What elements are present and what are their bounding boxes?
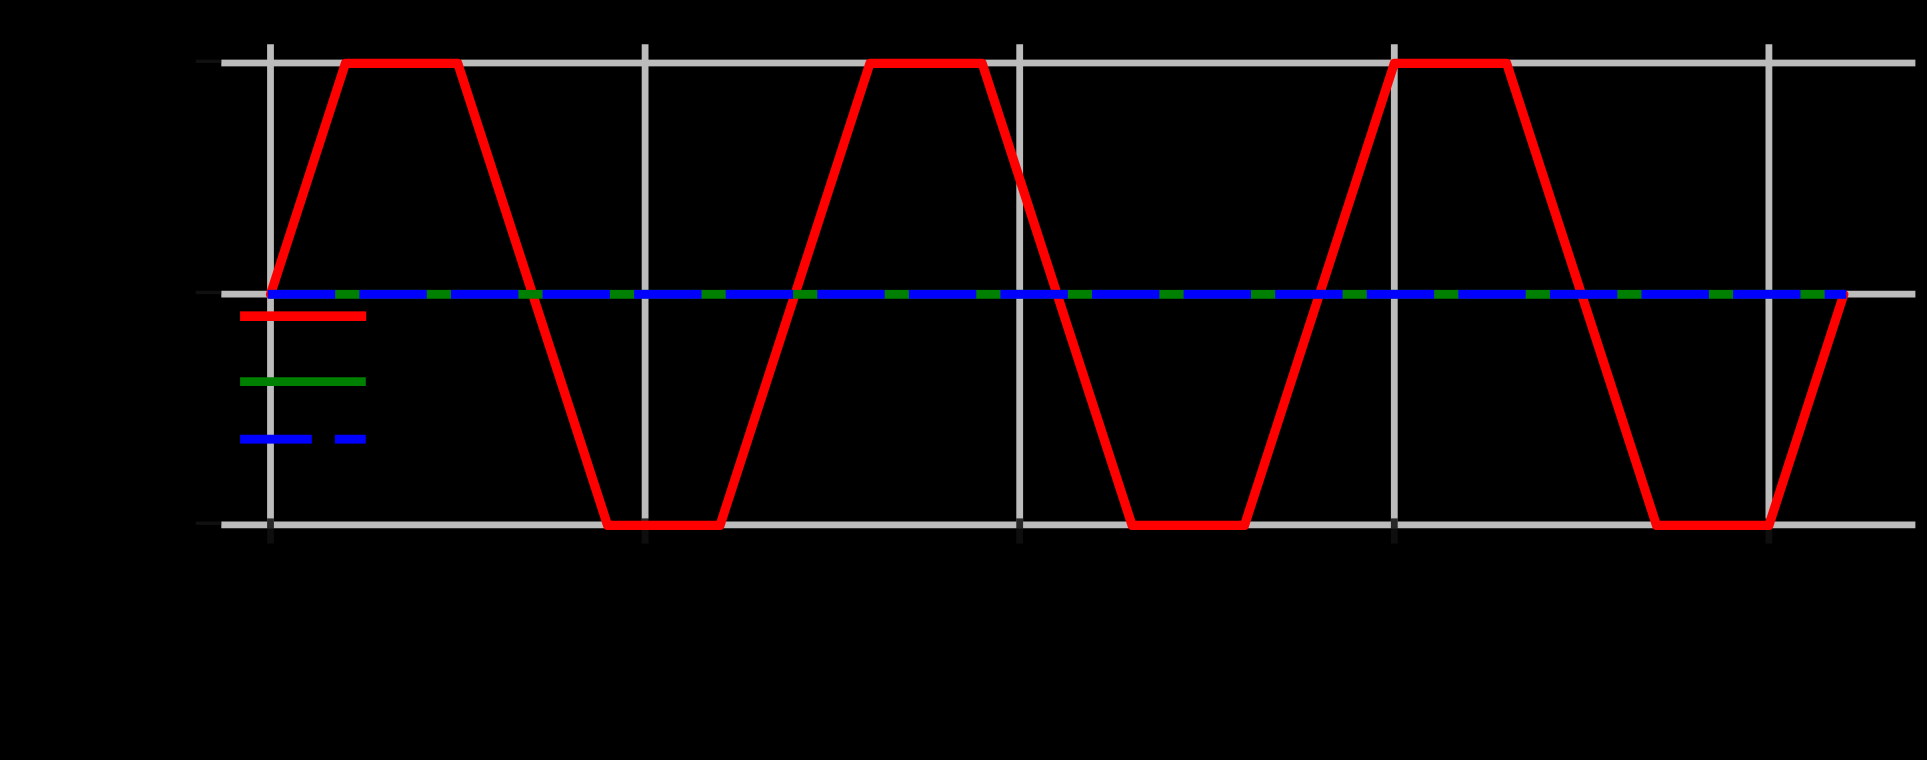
left tick stub y=+1 [196,60,222,63]
grid vertical x=20 [1766,44,1773,525]
grid vertical x=15 [1391,44,1398,525]
legend sample blue (dashed) dash 1 [240,435,312,444]
grid horizontal y=+1 [221,60,1915,67]
legend sample red (solid) [240,311,366,321]
grid vertical x=5 [642,44,649,525]
bottom tick tail below axis at x=0 [267,528,274,543]
grid vertical x=0 [267,44,274,525]
legend sample blue (dashed) dash 2 [335,435,366,444]
grid vertical x=10 [1016,44,1023,525]
left tick stub y=-1 [196,522,222,525]
red trapezoid wave curve [271,63,1844,525]
bottom tick overlay (on-axis part) at x=10 [1016,518,1023,528]
bottom tick overlay (on-axis part) at x=20 [1766,518,1773,528]
left tick stub y=0 [196,291,222,294]
bottom tick tail below axis at x=20 [1766,528,1773,543]
bottom tick overlay (on-axis part) at x=0 [267,518,274,528]
bottom tick overlay (on-axis part) at x=5 [642,518,649,528]
green zero line (solid, under blue dashes) [271,290,1844,299]
bottom tick tail below axis at x=15 [1391,528,1398,543]
grid horizontal y=-1 [221,522,1915,529]
grid horizontal y=0 [221,291,1915,298]
bottom tick tail below axis at x=10 [1016,528,1023,543]
bottom tick overlay (on-axis part) at x=15 [1391,518,1398,528]
legend sample green (solid) [240,377,366,386]
bottom tick tail below axis at x=5 [642,528,649,543]
blue dashed zero line [268,290,1847,299]
